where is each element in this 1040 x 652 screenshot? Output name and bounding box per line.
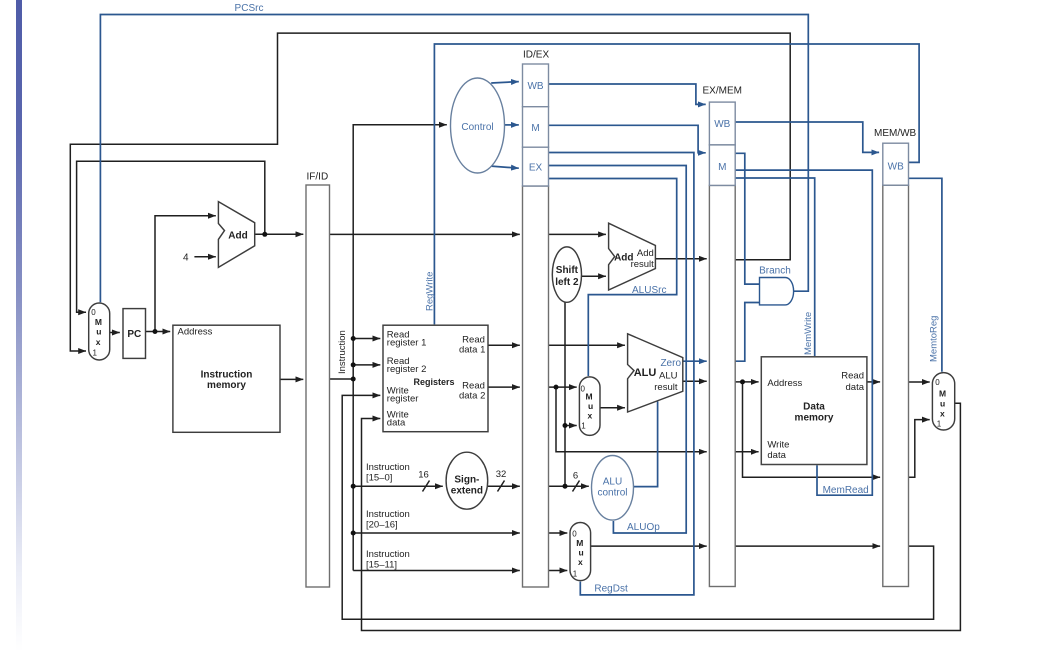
svg-text:data: data [767,450,786,461]
wire RegDst mux output -> EX/MEM [591,545,707,547]
svg-text:M: M [718,162,726,173]
wire write reg num EX/MEM -> MEM/WB [735,545,880,547]
svg-text:Add: Add [637,248,654,259]
wire write reg num feedback -> Registers Write register [342,395,933,619]
slash 6 [573,481,580,492]
mux RegDst [570,523,591,581]
wire Read data 1 ID/EX -> ALU [549,344,625,346]
svg-text:left 2: left 2 [555,277,579,288]
wire store data EX/MEM -> Data memory Write data [735,451,758,453]
svg-text:ALU: ALU [659,371,678,382]
register EX/MEM column [709,185,735,586]
wire PC+4 ID/EX -> branch Add [549,233,606,235]
wire Zero EX/MEM -> AND gate [735,303,759,362]
svg-text:M: M [576,538,583,548]
svg-text:MEM/WB: MEM/WB [874,128,917,139]
wire Zero ALU -> EX/MEM [683,360,707,362]
oval Sign-extend [446,452,488,509]
svg-text:M: M [531,123,539,134]
wire [20-16] ID/EX -> RegDst mux 0 [549,532,568,534]
node instruction tap [20-16] [351,531,356,536]
node instruction bus junction at IF/ID output [351,377,356,382]
wire Data memory Read data -> MEM/WB [867,381,880,383]
svg-text:u: u [579,548,584,558]
svg-text:control: control [597,488,627,499]
wire M chain ID/EX -> EX/MEM M [549,125,706,153]
svg-text:data 1: data 1 [459,344,485,355]
wire [15-0] ID/EX -> ALU control [549,485,589,487]
wire sign-extend riser to Shift left 2 [564,302,566,486]
svg-text:[15–0]: [15–0] [366,473,392,484]
svg-text:Instruction: Instruction [337,330,348,374]
mux MemtoReg (right) [932,373,954,430]
svg-text:Data: Data [803,401,825,412]
svg-text:M: M [586,391,593,401]
wire Read data 2 ID/EX -> ALUSrc mux 0 [549,386,577,388]
svg-text:RegDst: RegDst [594,584,628,595]
svg-text:u: u [940,399,945,409]
wire Sign-extend output -> ID/EX [488,485,520,487]
svg-text:x: x [588,410,593,420]
svg-text:1: 1 [937,420,942,429]
wire ALUOp: ID/EX EX -> ALU control [549,166,687,534]
mux ALUSrc [579,377,600,436]
wire ALU control output -> ALU [634,402,658,487]
oval Shift left 2 [552,247,581,302]
svg-text:PC: PC [127,329,141,340]
svg-text:1: 1 [93,348,98,357]
wire PC->Instruction memory Address [146,331,171,333]
wire IF/ID instruction output to bus [330,378,354,380]
wire instruction bus vertical + to Control [353,125,447,571]
svg-text:Zero: Zero [660,358,681,369]
wire Read data 1 -> ID/EX [488,344,520,346]
svg-text:extend: extend [451,486,483,497]
wire MemRead: EX/MEM M -> Data memory bottom [735,170,872,495]
wire Branch signal EX/MEM M -> AND gate [735,153,759,284]
svg-text:WB: WB [527,81,543,92]
svg-text:Sign-: Sign- [454,475,479,486]
gate AND (branch) [760,278,794,305]
wire ALU result -> EX/MEM [683,380,707,382]
wire Instruction [15-0] -> Sign-extend [353,485,443,487]
register MEM/WB WB box [883,143,909,185]
svg-text:Address: Address [767,378,802,389]
svg-text:MemWrite: MemWrite [803,312,814,355]
register IF/ID [306,185,330,587]
svg-text:register 1: register 1 [387,338,427,349]
wire ALU result EX/MEM -> Data memory Address [735,381,758,383]
svg-text:RegWrite: RegWrite [425,272,436,311]
svg-text:Branch: Branch [759,266,791,277]
wire PC+4 IF/ID -> ID/EX [330,233,520,235]
wire instruction tap -> Read register 2 [353,364,380,366]
wire Read data 2 -> ID/EX [488,386,520,388]
block Registers [383,325,488,432]
block Data memory [761,357,867,465]
wire Control -> ID/EX WB [491,82,519,83]
node read data 2 store tap [554,385,559,390]
svg-text:Instruction: Instruction [366,509,410,520]
wire ALUSrc mux output -> ALU [600,407,625,409]
node Add output junction [262,232,267,237]
wire Instruction [15-11] -> ID/EX [353,570,520,572]
wire RegDst select: ID/EX EX -> RegDst mux [549,153,694,595]
wire ALUSrc: ID/EX EX -> ALUSrc mux [549,179,677,377]
wire ALU result MEM/WB -> MemtoReg mux 1 [909,420,930,478]
wire WB chain ID/EX -> EX/MEM WB [549,84,706,104]
svg-text:0: 0 [935,378,940,387]
wire MemWrite: EX/MEM M -> Data memory top [735,178,815,356]
svg-text:memory: memory [207,380,246,391]
wire PC+4 loop to mux input 0 [77,161,265,312]
wire PC riser to Add top input [155,216,216,332]
register MEM/WB column [883,185,909,586]
svg-text:MemtoReg: MemtoReg [928,316,939,362]
oval ALU control [592,456,634,521]
svg-text:0: 0 [91,308,96,317]
svg-text:x: x [578,557,583,567]
svg-text:u: u [588,401,593,411]
svg-text:u: u [96,327,101,337]
svg-text:data: data [387,417,406,428]
wire constant 4 into Add [194,256,215,258]
svg-text:Control: Control [461,122,493,133]
svg-text:ID/EX: ID/EX [523,50,549,61]
wire ALU result bypass down -> MEM/WB [743,382,881,477]
node instruction tap [15-0] [351,484,356,489]
svg-text:EX: EX [529,163,543,174]
wire write data feedback -> Registers Write data [362,403,961,630]
svg-text:PCSrc: PCSrc [235,3,264,14]
wire tap -> ALUSrc mux 1 [565,425,577,427]
node sign-extend output tap [563,484,568,489]
register ID/EX column [523,186,549,587]
register EX/MEM M box [709,145,735,186]
register ID/EX WB box [523,64,549,107]
node ALU result tap [740,379,745,384]
svg-text:1: 1 [581,421,586,430]
node PC output junction [153,329,158,334]
alu ALU main [628,334,683,412]
wire Read data MEM/WB -> MemtoReg mux 0 [909,381,930,383]
svg-text:ALUOp: ALUOp [627,522,660,533]
wire PCSrc: AND gate -> PC mux select [100,15,808,303]
adder Add (PC+4) [218,202,254,268]
svg-text:Write: Write [767,440,789,451]
wire MemtoReg select: MEM/WB WB -> mux top [909,178,942,371]
wire [15-11] ID/EX -> RegDst mux 1 [549,570,568,572]
svg-text:IF/ID: IF/ID [307,172,329,183]
decorative slide edge bar [16,0,22,652]
svg-text:x: x [96,337,101,347]
adder Add (branch target) [609,223,656,290]
wire instruction tap -> Read register 1 [353,338,380,340]
register ID/EX M box [523,107,549,148]
svg-text:Instruction: Instruction [366,462,410,473]
svg-text:M: M [939,389,946,399]
svg-text:M: M [95,317,102,327]
svg-text:ALU: ALU [634,367,657,379]
node instruction tap read register 2 [351,362,356,367]
wire WB chain EX/MEM -> MEM/WB WB [735,122,879,152]
wire Instruction memory output -> IF/ID [280,378,303,380]
svg-text:EX/MEM: EX/MEM [703,86,742,97]
wire RegWrite: MEM/WB WB -> Registers [434,44,919,324]
svg-text:6: 6 [573,471,578,482]
mux PC source (left) [89,303,110,360]
svg-text:4: 4 [183,253,189,264]
wire Control -> ID/EX EX [490,166,519,168]
oval Control [451,78,505,173]
slash 32 [498,481,505,492]
slash 16 [423,481,430,492]
svg-text:Instruction: Instruction [366,549,410,560]
svg-text:Shift: Shift [556,265,579,276]
svg-text:[20–16]: [20–16] [366,520,398,531]
svg-text:ALUSrc: ALUSrc [632,285,666,296]
node instruction tap read register 1 [351,336,356,341]
svg-text:x: x [940,409,945,419]
svg-text:ALU: ALU [603,477,622,488]
register ID/EX EX box [523,147,549,186]
wire Add output -> IF/ID [255,233,304,235]
register PC [123,309,146,359]
svg-text:MemRead: MemRead [823,485,869,496]
svg-text:1: 1 [573,570,578,579]
svg-text:result: result [654,382,678,393]
wire store data branch down -> EX/MEM [556,387,707,452]
wire mux->PC [110,332,120,334]
svg-text:result: result [631,259,655,270]
block Instruction memory [173,325,280,432]
svg-text:Registers: Registers [414,377,455,387]
svg-text:memory: memory [795,413,834,424]
svg-text:Read: Read [841,371,864,382]
register EX/MEM WB box [709,102,735,145]
svg-text:register: register [387,394,419,405]
svg-text:WB: WB [714,119,730,130]
svg-text:Add: Add [228,231,247,242]
svg-text:16: 16 [418,470,429,481]
wire Shift left 2 -> branch Add [582,275,606,277]
wire Instruction [20-16] -> ID/EX [353,532,520,534]
wire Control -> ID/EX M [505,124,519,126]
svg-text:data 2: data 2 [459,390,485,401]
svg-text:register 2: register 2 [387,364,427,375]
wire branch Add result -> EX/MEM [655,258,706,260]
wire branch target feedback EX/MEM -> mux input 1 [70,33,790,351]
node ALUSrc mux 1 tap [563,423,568,428]
svg-text:[15–11]: [15–11] [366,560,397,571]
svg-text:data: data [846,382,865,393]
svg-text:32: 32 [496,469,507,480]
svg-text:Address: Address [178,327,213,338]
svg-text:WB: WB [888,161,904,172]
